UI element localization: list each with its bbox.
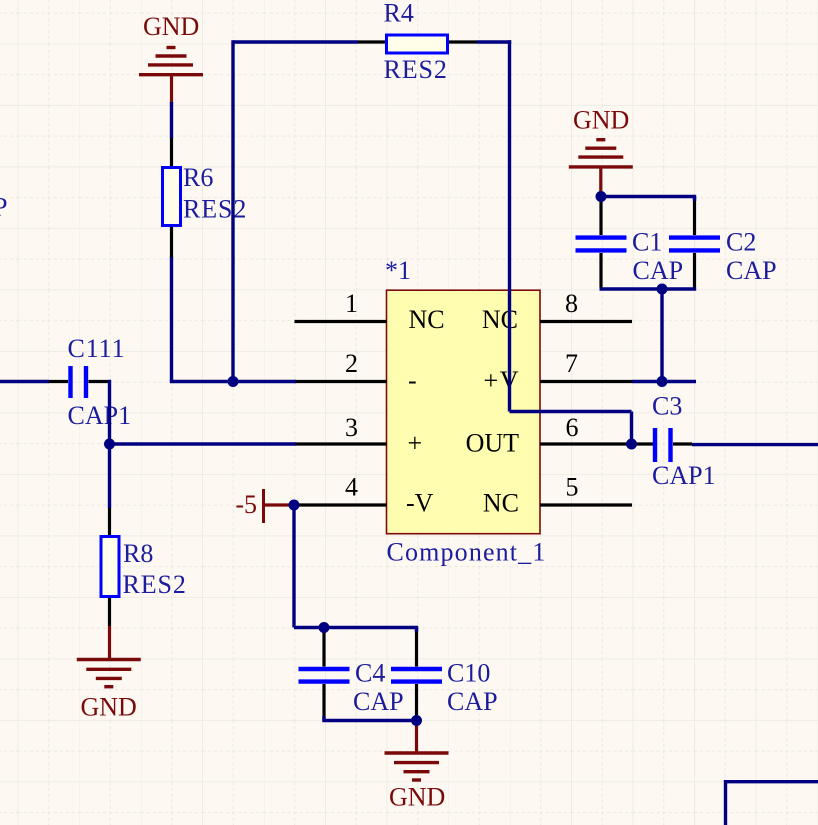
pin 7 — [540, 380, 632, 383]
wire junction to pin2 — [233, 380, 296, 383]
svg-text:P: P — [0, 193, 7, 222]
wire pin3 net horizontal — [110, 442, 297, 445]
svg-text:+V: +V — [484, 366, 520, 395]
capacitor C2 pins — [693, 198, 696, 235]
svg-text:OUT: OUT — [466, 429, 520, 458]
wire R4 top right segment — [477, 40, 511, 43]
sheet symbol corner bottom-right — [726, 780, 818, 783]
wire C2 top corner down — [693, 197, 696, 202]
wire R4 top left segment — [233, 40, 358, 43]
svg-text:CAP: CAP — [447, 687, 498, 716]
capacitor C1 pins — [599, 201, 602, 235]
pin 1 — [295, 320, 387, 323]
ground symbol GND bottom-left — [77, 626, 141, 687]
junction dot pin2 net — [228, 376, 239, 387]
svg-text:CAP1: CAP1 — [652, 461, 716, 490]
junction dot pin6/C3 — [626, 439, 637, 450]
capacitor C3 plates — [653, 428, 657, 462]
svg-text:C10: C10 — [447, 659, 490, 688]
junction dot GND/C1 top — [596, 191, 607, 202]
resistor R6 body — [163, 168, 181, 226]
svg-text:6: 6 — [566, 413, 579, 442]
wire pin3 junction down to R8 — [108, 444, 111, 508]
svg-text:7: 7 — [565, 349, 578, 378]
wire R4 loop left vertical — [231, 40, 234, 383]
svg-text:CAP: CAP — [353, 687, 404, 716]
svg-text:CAP: CAP — [633, 256, 684, 285]
wire R6 bottom down — [170, 257, 173, 382]
wire R6 bottom to junction — [170, 380, 233, 383]
svg-text:C3: C3 — [652, 392, 682, 421]
wire C1C2 bottom horizontal — [600, 287, 697, 290]
wire feedback horizontal — [510, 410, 632, 413]
junction dot C10 bottom / GND — [411, 715, 422, 726]
svg-text:8: 8 — [565, 289, 578, 318]
svg-text:R6: R6 — [183, 163, 213, 192]
capacitor C10 plates — [391, 667, 442, 671]
junction dot C1C2 bottom — [657, 284, 668, 295]
resistor R6 pins — [170, 137, 173, 166]
wire GND to R6 — [170, 102, 173, 138]
pin 8 — [540, 320, 632, 323]
wire R4 loop right vertical — [508, 40, 511, 411]
wire C1C2 top horizontal — [601, 195, 696, 198]
wire output from C3 — [692, 443, 818, 446]
capacitor C4 plates — [299, 667, 350, 671]
pin 3 — [295, 442, 387, 445]
capacitor C3 right pin — [673, 442, 692, 445]
pin 6 — [540, 442, 653, 445]
resistor R4 pins — [358, 40, 385, 43]
svg-text:4: 4 — [345, 473, 358, 502]
svg-text:C2: C2 — [726, 228, 756, 257]
svg-text:R8: R8 — [123, 539, 153, 568]
svg-text:NC: NC — [409, 305, 445, 334]
wire feedback down to pin6 — [630, 412, 633, 445]
svg-text:Component_1: Component_1 — [387, 538, 547, 567]
ground symbol GND bottom-middle — [385, 721, 449, 781]
svg-text:GND: GND — [389, 783, 445, 812]
ground symbol GND top-left — [139, 48, 203, 105]
wire input to C111 — [0, 380, 49, 383]
capacitor C111 plates — [68, 366, 72, 398]
resistor R8 pins — [108, 507, 111, 535]
resistor R8 body — [101, 537, 119, 597]
ground symbol GND top-right — [569, 140, 633, 194]
power port -5 bar — [262, 489, 265, 523]
capacitor C2 plates — [669, 235, 720, 239]
junction dot at C111/pin3/R8 — [104, 439, 115, 450]
svg-text:5: 5 — [566, 473, 579, 502]
capacitor C10 pins — [415, 629, 418, 667]
capacitor C4 pins — [322, 629, 325, 667]
junction dot -5/pin4 — [289, 500, 300, 511]
svg-text:CAP: CAP — [726, 256, 777, 285]
svg-text:RES2: RES2 — [183, 195, 247, 224]
junction dot C4 top — [319, 622, 330, 633]
svg-text:CAP1: CAP1 — [68, 401, 132, 430]
svg-text:R4: R4 — [384, 0, 414, 28]
pin 5 — [540, 503, 632, 506]
svg-text:-5: -5 — [235, 490, 257, 519]
svg-text:RES2: RES2 — [123, 570, 187, 599]
svg-text:*1: *1 — [385, 256, 411, 285]
wire C1C2 bottom to pin7 vertical — [660, 289, 663, 382]
svg-text:NC: NC — [483, 489, 519, 518]
wire C10 top corner down — [415, 628, 418, 633]
wire pin7 to +V net — [632, 380, 696, 383]
power port -5 stem — [264, 503, 295, 506]
wire C4 bottom corner up — [322, 716, 325, 721]
wire C111 corner down to pin3 net — [108, 380, 111, 444]
svg-text:C1: C1 — [632, 228, 662, 257]
svg-text:GND: GND — [573, 106, 629, 135]
svg-text:C4: C4 — [355, 659, 385, 688]
svg-text:-: - — [408, 366, 417, 395]
svg-text:1: 1 — [345, 289, 358, 318]
svg-text:3: 3 — [345, 413, 358, 442]
resistor R4 body — [387, 35, 448, 53]
pin 4 — [295, 503, 387, 506]
wire pin4 down vertical — [292, 505, 295, 628]
op-amp U Component_1 body — [387, 290, 541, 534]
svg-text:GND: GND — [81, 693, 137, 722]
svg-text:+: + — [408, 429, 423, 458]
svg-text:GND: GND — [143, 12, 199, 41]
wire C4C10 top horizontal — [294, 626, 418, 629]
wire C4C10 bottom horizontal — [322, 719, 416, 722]
pin 2 — [295, 380, 387, 383]
svg-text:-V: -V — [406, 489, 434, 518]
svg-text:NC: NC — [482, 305, 518, 334]
capacitor C111 pins — [49, 380, 69, 383]
junction dot pin7 net — [657, 376, 668, 387]
svg-text:RES2: RES2 — [384, 55, 448, 84]
capacitor C1 plates — [576, 235, 627, 239]
svg-text:2: 2 — [345, 349, 358, 378]
svg-text:C111: C111 — [68, 334, 126, 363]
